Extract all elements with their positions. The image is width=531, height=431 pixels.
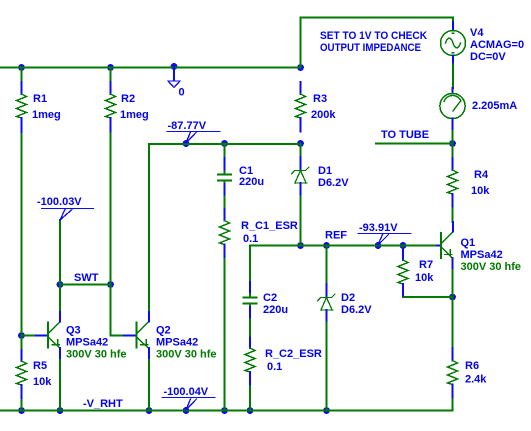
node SWT left bbox=[57, 281, 64, 288]
svg-text:R_C2_ESR: R_C2_ESR bbox=[265, 348, 322, 360]
svg-text:C2: C2 bbox=[263, 292, 277, 304]
transistor Q1 bbox=[437, 222, 521, 273]
svg-text:R7: R7 bbox=[419, 259, 433, 271]
wire D2 top stub bbox=[326, 246, 328, 285]
voltage label -100.04V bbox=[162, 386, 215, 410]
svg-text:R4: R4 bbox=[474, 169, 489, 181]
wire top rail y=67.5 bbox=[0, 67, 301, 69]
wire R1 top stub bbox=[21, 68, 23, 83]
svg-text:R1: R1 bbox=[33, 93, 47, 105]
svg-text:D1: D1 bbox=[318, 165, 332, 177]
capacitor C1 bbox=[218, 158, 264, 195]
wire R4 bottom to Q1 collector bbox=[452, 207, 454, 223]
wire D1 top stub bbox=[300, 144, 302, 158]
wire V4 lead top vertical bbox=[452, 18, 454, 23]
svg-text:Q3: Q3 bbox=[66, 325, 81, 337]
node -93.91V label attach bbox=[375, 242, 382, 249]
wire V4 to meter bbox=[452, 63, 454, 89]
resistor R_C1_ESR bbox=[220, 209, 298, 257]
svg-text:1meg: 1meg bbox=[120, 109, 149, 121]
wire R_C2_ESR bottom to rail bbox=[249, 385, 251, 411]
resistor R1 bbox=[17, 82, 61, 132]
wire R4 top lead stub bbox=[452, 144, 454, 159]
node bottom rail at D2 bbox=[323, 407, 330, 414]
node C1 top bbox=[221, 140, 228, 147]
wire REF horizontal bbox=[250, 245, 437, 247]
wire R7 node down to R6 bbox=[452, 297, 454, 348]
wire D2 bottom to rail bbox=[326, 321, 328, 411]
voltage label -93.91V bbox=[358, 222, 411, 245]
node junction top rail at R2 bbox=[107, 64, 114, 71]
svg-text:Q1: Q1 bbox=[461, 237, 476, 249]
wire R2 top stub bbox=[110, 68, 112, 83]
svg-text:0.1: 0.1 bbox=[243, 233, 258, 245]
transistor Q2 bbox=[124, 312, 217, 361]
wire R5 bottom to rail bbox=[21, 398, 23, 411]
svg-text:R6: R6 bbox=[465, 360, 479, 372]
node junction top rail at R3 bbox=[297, 64, 304, 71]
wire upper run to V4 bbox=[301, 17, 454, 19]
svg-text:-100.03V: -100.03V bbox=[37, 196, 82, 208]
svg-text:SET TO 1V TO CHECK: SET TO 1V TO CHECK bbox=[320, 30, 427, 42]
wire Q3 emitter to rail bbox=[59, 358, 61, 411]
node R7 top bbox=[400, 242, 407, 249]
svg-text:2.4k: 2.4k bbox=[465, 374, 487, 386]
svg-text:1meg: 1meg bbox=[32, 109, 61, 121]
wire C1 top stub bbox=[224, 144, 226, 159]
text note SET TO 1V TO CHECK OUTPUT IMPEDANCE bbox=[320, 30, 427, 54]
wire R7 bottom corner to Q1 emitter bbox=[403, 296, 453, 298]
svg-text:10k: 10k bbox=[33, 376, 52, 388]
wire Q3 collector column bbox=[59, 220, 61, 312]
node bottom rail at R1 bbox=[18, 407, 25, 414]
node bottom rail at R_C1_ESR bbox=[221, 407, 228, 414]
resistor R7 bbox=[398, 249, 434, 296]
wire SWT horizontal bbox=[60, 284, 111, 286]
resistor R4 bbox=[448, 158, 491, 207]
svg-text:D6.2V: D6.2V bbox=[341, 304, 372, 316]
svg-text:-93.91V: -93.91V bbox=[359, 222, 398, 234]
wire C2 bottom to R_C2_ESR bbox=[249, 318, 251, 338]
svg-text:220u: 220u bbox=[263, 304, 288, 316]
wire meter to TO TUBE node bbox=[452, 129, 454, 144]
wire bottom rail y=410.5 bbox=[0, 410, 453, 412]
wire C1 bottom to R_C1_ESR bbox=[224, 195, 226, 210]
node junction top rail at ground bbox=[171, 63, 178, 70]
wire R2 bottom down to SWT and Q2 base corner bbox=[110, 132, 112, 336]
svg-text:300V 30 hfe: 300V 30 hfe bbox=[66, 349, 127, 361]
svg-text:D6.2V: D6.2V bbox=[318, 177, 349, 189]
svg-text:0.1: 0.1 bbox=[267, 361, 282, 373]
node -87.77V label attach bbox=[183, 140, 190, 147]
wire R1 bottom down to Q3 base node bbox=[21, 132, 23, 350]
wire R6 bottom to rail corner bbox=[452, 398, 454, 411]
capacitor C2 bbox=[244, 282, 289, 318]
node Q3 base bbox=[18, 332, 25, 339]
svg-text:SWT: SWT bbox=[74, 272, 99, 284]
svg-text:2.205mA: 2.205mA bbox=[472, 100, 517, 112]
ground 0 bbox=[168, 68, 185, 99]
svg-text:DC=0V: DC=0V bbox=[470, 51, 506, 63]
resistor R6 bbox=[448, 348, 488, 398]
node R3 bottom / D1 top bbox=[297, 140, 304, 147]
svg-text:0: 0 bbox=[179, 87, 185, 99]
svg-text:ACMAG=0: ACMAG=0 bbox=[470, 39, 524, 51]
voltage label -100.03V bbox=[37, 196, 94, 220]
resistor R2 bbox=[106, 82, 149, 132]
wire Q2 collector corner to -87.77V rail bbox=[149, 144, 301, 322]
svg-text:D2: D2 bbox=[341, 292, 355, 304]
node R7 bottom / Q1 emitter bbox=[449, 294, 456, 301]
wire R7 top stub bbox=[402, 246, 404, 249]
svg-text:Q2: Q2 bbox=[156, 325, 171, 337]
node SWT right bbox=[107, 281, 114, 288]
node D2 top on REF wire bbox=[323, 242, 330, 249]
transistor Q3 bbox=[36, 312, 127, 361]
svg-text:200k: 200k bbox=[311, 109, 336, 121]
wire Q3 base horizontal bbox=[22, 335, 37, 337]
resistor R_C2_ESR bbox=[245, 338, 322, 385]
wire TO TUBE horizontal bbox=[376, 143, 453, 145]
svg-text:R2: R2 bbox=[121, 93, 135, 105]
svg-text:R_C1_ESR: R_C1_ESR bbox=[241, 220, 298, 232]
svg-text:MPSa42: MPSa42 bbox=[461, 249, 503, 261]
svg-text:10k: 10k bbox=[471, 185, 490, 197]
wire Q2 emitter to rail bbox=[148, 358, 150, 411]
svg-text:300V 30 hfe: 300V 30 hfe bbox=[156, 349, 217, 361]
svg-text:R5: R5 bbox=[33, 360, 47, 372]
ammeter 2.205mA bbox=[440, 88, 517, 129]
node TO TUBE junction bbox=[449, 140, 456, 147]
node bottom rail at Q3 emitter bbox=[57, 407, 64, 414]
voltage source V4 bbox=[441, 22, 525, 63]
svg-text:220u: 220u bbox=[239, 176, 264, 188]
svg-text:REF: REF bbox=[325, 230, 347, 242]
svg-text:10k: 10k bbox=[415, 272, 434, 284]
svg-text:-V_RHT: -V_RHT bbox=[83, 398, 123, 410]
node -100.04V label attach bbox=[183, 407, 190, 414]
wire Q1 emitter to R7 node bbox=[452, 268, 454, 297]
resistor R3 bbox=[296, 82, 337, 132]
node junction top rail at R1 bbox=[18, 64, 25, 71]
voltage label -87.77V bbox=[167, 120, 220, 143]
zener diode D2 bbox=[318, 284, 373, 321]
svg-text:R3: R3 bbox=[313, 93, 327, 105]
wire D1 bottom to REF wire bbox=[300, 195, 302, 246]
svg-text:MPSa42: MPSa42 bbox=[156, 337, 198, 349]
svg-text:-87.77V: -87.77V bbox=[168, 120, 207, 132]
svg-text:OUTPUT IMPEDANCE: OUTPUT IMPEDANCE bbox=[320, 42, 421, 54]
node D1 bottom on REF wire bbox=[297, 242, 304, 249]
node bottom rail at Q2 emitter bbox=[146, 407, 153, 414]
wire R_C1_ESR bottom to rail bbox=[224, 257, 226, 411]
svg-text:MPSa42: MPSa42 bbox=[66, 337, 108, 349]
node bottom rail at R_C2_ESR bbox=[247, 407, 254, 414]
wire C2 corner down bbox=[249, 246, 251, 283]
svg-text:-100.04V: -100.04V bbox=[164, 386, 209, 398]
wire R3 node up to upper run bbox=[300, 18, 302, 68]
resistor R5 bbox=[17, 350, 53, 398]
svg-text:TO TUBE: TO TUBE bbox=[381, 129, 429, 141]
svg-text:V4: V4 bbox=[470, 27, 484, 39]
svg-text:300V 30 hfe: 300V 30 hfe bbox=[461, 261, 522, 273]
wire Q2 base horizontal bbox=[111, 335, 125, 337]
zener diode D1 bbox=[292, 157, 350, 195]
